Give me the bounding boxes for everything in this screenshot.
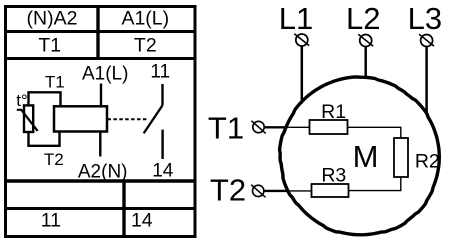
label L2 — [346, 1, 380, 36]
svg-text:M: M — [353, 139, 379, 174]
svg-text:A2(N): A2(N) — [78, 162, 128, 183]
label R2 — [415, 151, 440, 173]
label T2 table — [134, 34, 157, 56]
wire L2 — [364, 47, 367, 79]
label 14 table — [131, 209, 153, 231]
motor housing circle — [280, 77, 440, 235]
svg-text:(N)A2: (N)A2 — [27, 8, 78, 30]
label t° — [16, 91, 28, 110]
svg-text:11: 11 — [150, 61, 170, 82]
terminal T2 — [251, 185, 265, 198]
label L3 — [408, 1, 442, 36]
svg-text:T2: T2 — [44, 150, 64, 169]
label 11 table — [41, 209, 61, 231]
svg-text:R2: R2 — [415, 151, 440, 173]
resistor R3 — [312, 184, 349, 197]
label R1 — [321, 101, 346, 123]
terminal table grid — [4, 5, 196, 237]
svg-text:T1: T1 — [38, 34, 61, 56]
pin 11 — [150, 61, 170, 82]
terminal T1 — [251, 121, 265, 134]
svg-text:14: 14 — [152, 160, 174, 181]
svg-text:A1(L): A1(L) — [121, 8, 169, 30]
wire T1 to coil — [29, 92, 61, 107]
relay coil K1 — [54, 106, 107, 131]
wire L3 — [425, 47, 428, 114]
terminal L1 — [294, 34, 309, 46]
svg-text:T2: T2 — [134, 34, 157, 56]
resistor R1 — [310, 120, 348, 134]
svg-text:L2: L2 — [346, 1, 380, 36]
dashed actuation link — [108, 118, 149, 120]
label T2 sensor — [44, 150, 64, 169]
svg-text:T1: T1 — [45, 72, 65, 91]
svg-text:14: 14 — [131, 209, 153, 231]
label L1 — [279, 1, 313, 36]
label (N)A2 — [27, 8, 78, 30]
label R3 — [321, 164, 346, 186]
wire T1 — [264, 126, 309, 128]
terminal L3 — [419, 34, 434, 46]
svg-text:L3: L3 — [408, 1, 442, 36]
label A1(L) coil — [82, 63, 128, 84]
wire T2 to coil — [29, 131, 60, 146]
label T1 sensor — [45, 72, 65, 91]
wire contact 11 — [161, 84, 163, 105]
wire A1 — [100, 84, 102, 107]
pin 14 — [152, 160, 174, 181]
wire contact 14 — [161, 130, 163, 159]
svg-text:R3: R3 — [321, 164, 346, 186]
terminal L2 — [358, 34, 373, 46]
svg-text:R1: R1 — [321, 101, 346, 123]
label T2 motor — [210, 173, 246, 208]
resistor R2 — [394, 138, 408, 177]
label A1(L) table — [121, 8, 169, 30]
label T1 motor — [208, 111, 244, 146]
label T1 table — [38, 34, 61, 56]
wire R2 to R3 — [349, 177, 401, 191]
contact blade NO — [144, 105, 163, 133]
svg-text:T2: T2 — [210, 173, 246, 208]
svg-text:A1(L): A1(L) — [82, 63, 128, 84]
wire A2 — [99, 132, 101, 157]
svg-text:11: 11 — [41, 209, 61, 231]
label A2(N) coil — [78, 162, 128, 183]
label M — [353, 139, 379, 174]
wire R1 to R2 — [348, 127, 401, 138]
svg-text:L1: L1 — [279, 1, 313, 36]
wire L1 — [301, 46, 304, 104]
svg-text:T1: T1 — [208, 111, 244, 146]
thermistor RT1 — [17, 105, 38, 132]
wire T2 — [264, 190, 312, 192]
